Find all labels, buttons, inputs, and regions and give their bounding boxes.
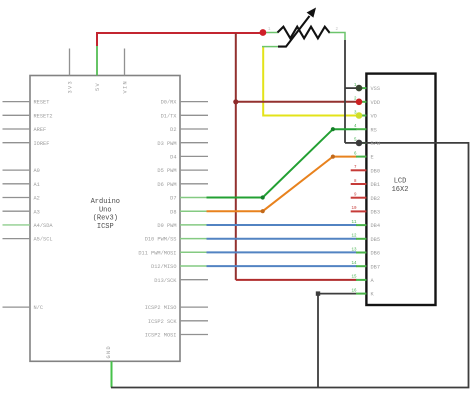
svg-text:R/W: R/W: [371, 141, 381, 147]
svg-text:D4: D4: [170, 155, 176, 161]
svg-text:DB0: DB0: [371, 168, 381, 174]
svg-text:(Rev3): (Rev3): [93, 215, 118, 223]
svg-text:VO: VO: [371, 114, 377, 120]
svg-text:D11 PWM/MOSI: D11 PWM/MOSI: [138, 250, 176, 256]
svg-text:E: E: [371, 155, 374, 161]
svg-text:D8: D8: [170, 209, 176, 215]
svg-text:A0: A0: [34, 168, 40, 174]
svg-text:ICSP2 SCK: ICSP2 SCK: [148, 319, 177, 325]
svg-text:A1: A1: [34, 182, 40, 188]
svg-text:GND: GND: [106, 345, 112, 358]
svg-text:D7: D7: [170, 196, 176, 202]
svg-text:D6 PWM: D6 PWM: [157, 182, 176, 188]
svg-text:A3: A3: [34, 209, 40, 215]
svg-text:11: 11: [351, 221, 357, 225]
svg-text:D10 PWM/SS: D10 PWM/SS: [145, 237, 177, 243]
svg-text:D12/MISO: D12/MISO: [151, 264, 176, 270]
svg-text:D13/SCK: D13/SCK: [154, 278, 177, 284]
svg-text:RESET2: RESET2: [34, 113, 53, 119]
svg-text:D1/TX: D1/TX: [161, 113, 178, 119]
svg-text:LCD: LCD: [394, 178, 407, 186]
svg-text:13: 13: [351, 248, 357, 252]
svg-text:VSS: VSS: [371, 86, 381, 92]
svg-text:3V3: 3V3: [67, 80, 73, 93]
svg-text:DB6: DB6: [371, 251, 381, 257]
svg-text:VDD: VDD: [371, 100, 381, 106]
svg-text:DB2: DB2: [371, 196, 381, 202]
svg-text:DB3: DB3: [371, 210, 381, 216]
svg-text:10: 10: [351, 207, 357, 211]
svg-text:DB4: DB4: [371, 223, 381, 229]
svg-text:DB7: DB7: [371, 264, 381, 270]
svg-text:RS: RS: [371, 127, 377, 133]
svg-text:D2: D2: [170, 127, 176, 133]
svg-text:ICSP2 MOSI: ICSP2 MOSI: [145, 333, 177, 339]
svg-text:IOREF: IOREF: [34, 141, 50, 147]
svg-text:ICSP2 MISO: ICSP2 MISO: [145, 305, 177, 311]
svg-text:AREF: AREF: [34, 127, 47, 133]
svg-text:ICSP: ICSP: [97, 223, 114, 231]
svg-text:14: 14: [351, 262, 357, 266]
svg-text:Uno: Uno: [99, 206, 112, 214]
svg-text:DB5: DB5: [371, 237, 381, 243]
svg-text:15: 15: [351, 276, 357, 280]
svg-text:A5/SCL: A5/SCL: [34, 237, 53, 243]
svg-text:A2: A2: [34, 196, 40, 202]
svg-text:12: 12: [351, 235, 357, 239]
svg-text:16X2: 16X2: [392, 186, 409, 194]
svg-text:D5 PWM: D5 PWM: [157, 168, 176, 174]
svg-text:Arduino: Arduino: [91, 198, 120, 206]
svg-text:D0/RX: D0/RX: [161, 100, 178, 106]
svg-text:16: 16: [351, 289, 357, 293]
svg-text:D3 PWM: D3 PWM: [157, 141, 176, 147]
svg-text:D9 PWM: D9 PWM: [157, 223, 176, 229]
svg-text:5V: 5V: [95, 82, 101, 91]
svg-text:RESET: RESET: [34, 100, 50, 106]
svg-text:A4/SDA: A4/SDA: [34, 223, 54, 229]
svg-text:VIN: VIN: [122, 80, 128, 93]
svg-text:N/C: N/C: [34, 305, 44, 311]
svg-text:DB1: DB1: [371, 182, 381, 188]
